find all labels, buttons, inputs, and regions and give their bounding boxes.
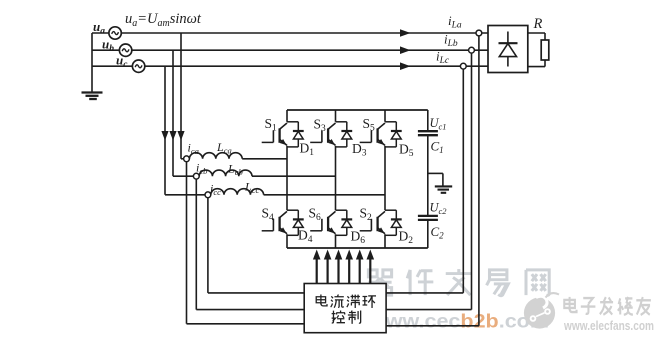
svg-text:D3: D3 (352, 141, 367, 159)
svg-text:S3: S3 (314, 117, 327, 135)
svg-text:S1: S1 (265, 116, 278, 134)
svg-text:Lcb: Lcb (227, 162, 243, 178)
svg-text:D2: D2 (399, 229, 414, 247)
svg-text:S2: S2 (360, 206, 373, 224)
svg-text:Uc2: Uc2 (430, 201, 448, 217)
svg-text:R: R (533, 16, 543, 32)
svg-text:ua=Uamsinωt: ua=Uamsinωt (125, 11, 202, 29)
svg-text:icb: icb (196, 161, 207, 177)
svg-text:C1: C1 (431, 139, 444, 156)
svg-text:Lcc: Lcc (244, 180, 259, 196)
svg-text:iLb: iLb (444, 32, 458, 50)
svg-text:Uc1: Uc1 (430, 116, 447, 132)
svg-text:C2: C2 (431, 224, 445, 241)
svg-text:icc: icc (210, 182, 221, 198)
svg-text:iLa: iLa (448, 13, 462, 31)
svg-text:iLc: iLc (436, 49, 450, 67)
svg-text:ica: ica (188, 141, 199, 157)
svg-text:www.elecfans.com: www.elecfans.com (563, 318, 654, 333)
svg-text:www.cecb2b.com: www.cecb2b.com (368, 311, 549, 333)
svg-text:S4: S4 (262, 206, 275, 224)
svg-text:S5: S5 (363, 116, 376, 134)
svg-text:ua: ua (93, 19, 105, 37)
svg-text:S6: S6 (309, 206, 322, 224)
svg-text:Lca: Lca (216, 140, 232, 156)
svg-text:D5: D5 (399, 142, 414, 160)
